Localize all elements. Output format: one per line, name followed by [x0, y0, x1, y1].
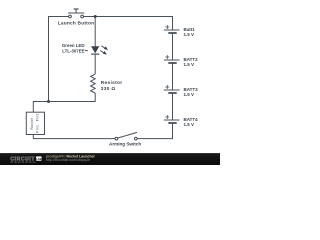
svg-text:Pin2: Pin2 [35, 113, 39, 121]
wire batt3-batt4 [172, 93, 174, 120]
footer logo LAB block [36, 156, 42, 160]
battery BATT2 plates [164, 55, 180, 63]
arming switch SW2 right terminal [134, 137, 137, 140]
svg-text:CIRCUIT: CIRCUIT [10, 156, 35, 162]
wire top-left run [49, 17, 69, 102]
arming switch SW2 blade [118, 132, 138, 138]
svg-text:Launch Button: Launch Button [58, 21, 94, 27]
LED leader dash [85, 49, 88, 52]
svg-text:1.5 V: 1.5 V [184, 62, 195, 67]
svg-text:1.5 V: 1.5 V [184, 122, 195, 127]
pushbutton SW1 actuator bar [68, 12, 84, 14]
pushbutton SW1 cap [74, 8, 79, 10]
resistor R1 zigzag [91, 74, 96, 93]
battery BATT4 plates [164, 115, 180, 123]
svg-text:1.5 V: 1.5 V [184, 32, 195, 37]
svg-text:Pin1: Pin1 [35, 125, 39, 133]
footer bar [0, 153, 220, 165]
pushbutton SW1 left terminal [69, 15, 72, 18]
svg-text:Green LED: Green LED [62, 43, 85, 48]
footer tagline [10, 161, 35, 163]
LED D1 cathode bar [91, 53, 99, 55]
node junction bottom [47, 100, 50, 103]
wire resistor to bottom node [33, 93, 95, 112]
wire batt1-batt2 [172, 33, 174, 60]
svg-text:Resistor: Resistor [101, 80, 123, 86]
svg-text:LAB: LAB [36, 157, 42, 161]
LED D1 emission arrow 1 [101, 46, 108, 50]
battery BATT1 plates [164, 25, 180, 33]
svg-text:http://circuitlab.com/c6zpq2e: http://circuitlab.com/c6zpq2e [46, 158, 90, 162]
svg-text:1.5 V: 1.5 V [184, 92, 195, 97]
wire LED to resistor [94, 54, 96, 74]
svg-text:Arming Switch: Arming Switch [109, 141, 141, 146]
svg-text:LTL-307EE: LTL-307EE [62, 48, 84, 53]
arming switch SW2 left terminal [115, 137, 118, 140]
LED D1 triangle [91, 46, 99, 53]
pushbutton SW1 stem [75, 9, 77, 13]
wire switch to battery bottom [137, 123, 172, 139]
svg-text:Rocket: Rocket [30, 117, 34, 129]
wire rocket to bottom [33, 135, 115, 139]
battery BATT3 plates [164, 85, 180, 93]
node junction top [94, 15, 97, 18]
wire top-right run [84, 17, 173, 31]
LED D1 emission arrow 2 [100, 51, 107, 55]
pushbutton SW1 right terminal [81, 15, 84, 18]
rocket box J1 [26, 112, 44, 134]
wire batt2-batt3 [172, 63, 174, 90]
wire LED branch upper [94, 17, 96, 47]
svg-text:330 Ω: 330 Ω [101, 86, 116, 92]
